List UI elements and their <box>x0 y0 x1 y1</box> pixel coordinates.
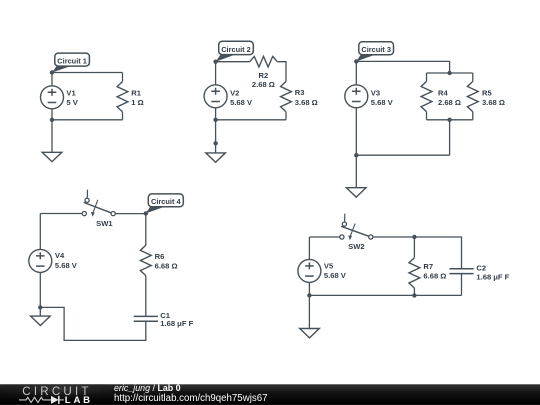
svg-text:5 V: 5 V <box>66 98 78 107</box>
wire: V2 top lead <box>215 62 217 85</box>
wire: C2 bottom lead <box>461 274 463 296</box>
flag: Circuit 4 callout <box>146 194 184 214</box>
switch SW2 actuation arrow <box>348 224 355 241</box>
junction: circuit 3 ground node <box>354 153 358 157</box>
flag: Circuit 1 callout <box>52 53 89 72</box>
svg-text:V5: V5 <box>324 261 334 270</box>
label: V1 designator <box>66 88 76 97</box>
svg-text:http://circuitlab.com/ch9qeh75: http://circuitlab.com/ch9qeh75wjs67 <box>114 393 267 404</box>
wire: V4 top lead <box>39 214 41 250</box>
label: R5 designator <box>482 89 492 98</box>
ground circuit 1 <box>42 152 62 161</box>
svg-text:R1: R1 <box>131 89 141 98</box>
wire: R4 bottom lead <box>426 112 428 120</box>
ground circuit 5 <box>300 329 320 338</box>
svg-text:Circuit 4: Circuit 4 <box>151 197 181 206</box>
junction: V1 bottom node <box>50 118 54 122</box>
svg-text:V3: V3 <box>371 88 380 97</box>
svg-text:3.68 Ω: 3.68 Ω <box>482 98 505 107</box>
label: V4 value <box>55 261 78 270</box>
label: C1 designator <box>160 311 170 320</box>
node: circuit 2 anchor dot <box>213 60 217 64</box>
svg-text:Circuit 2: Circuit 2 <box>221 45 251 54</box>
label: R7 value <box>423 272 446 281</box>
svg-text:V2: V2 <box>230 88 239 97</box>
wire: circuit 1 top rail <box>52 72 123 74</box>
svg-text:R4: R4 <box>438 89 448 98</box>
junction: circuit 5 ground node <box>307 293 311 297</box>
label: V5 designator <box>324 261 334 270</box>
junction: V2 bottom node <box>213 118 217 122</box>
wire: R6 top lead <box>145 214 147 246</box>
wire: circuit 3 top rail <box>356 61 449 73</box>
voltage source V5 <box>298 259 321 282</box>
ground circuit 4 <box>31 316 51 325</box>
resistor R6 <box>140 245 151 275</box>
label: C2 designator <box>476 264 486 273</box>
node: circuit 3 anchor dot <box>354 59 358 63</box>
wire: parallel top rail <box>427 72 473 74</box>
footer bar background <box>0 375 540 405</box>
wire: circuit 2 bottom rail <box>216 119 286 121</box>
wire: R7 top lead <box>413 237 415 258</box>
svg-text:SW2: SW2 <box>348 242 364 251</box>
label: V5 value <box>324 271 347 280</box>
svg-text:2.68 Ω: 2.68 Ω <box>438 98 461 107</box>
resistor R5 <box>467 81 478 111</box>
footer attribution line <box>114 383 181 393</box>
logo resistor zigzag <box>19 397 51 402</box>
svg-text:1.68 μF F: 1.68 μF F <box>160 319 193 328</box>
wire: ground stub circuit 5 <box>308 295 310 328</box>
svg-text:R6: R6 <box>155 252 165 261</box>
wire: V5 bottom lead <box>308 282 310 295</box>
label: V4 designator <box>55 251 65 260</box>
label: R1 designator <box>131 89 141 98</box>
flag: Circuit 3 callout <box>356 42 393 62</box>
capacitor C1 <box>134 316 158 321</box>
logo diode <box>51 396 64 404</box>
wire: circuit 5 bottom rail <box>309 294 461 296</box>
label: R3 designator <box>295 88 305 97</box>
svg-text:R3: R3 <box>295 88 305 97</box>
voltage source V4 <box>29 249 52 272</box>
resistor R4 <box>421 81 432 111</box>
wire: V1 bottom lead <box>51 109 53 120</box>
label: R7 designator <box>423 262 433 271</box>
switch SW2 right terminal <box>369 235 373 239</box>
svg-text:R5: R5 <box>482 89 492 98</box>
switch SW2 upper terminal <box>342 222 346 226</box>
wire: R1 top lead <box>122 73 124 82</box>
wire: R5 top lead <box>472 73 474 81</box>
wire: drop to circuit 3 bottom rail <box>449 120 451 155</box>
wire: circuit 1 bottom rail <box>52 119 123 121</box>
svg-text:SW1: SW1 <box>96 219 113 228</box>
resistor R7 <box>409 258 420 288</box>
resistor R3 <box>281 82 292 112</box>
label: V3 designator <box>371 88 380 97</box>
wire: V2 bottom lead <box>215 108 217 120</box>
junction: ground net dot circuit 2 <box>213 141 217 145</box>
voltage source V2 <box>204 85 227 108</box>
svg-text:5.68 V: 5.68 V <box>324 271 347 280</box>
wire: ground stub circuit 1 <box>51 120 53 153</box>
switch SW1 control stub <box>86 190 88 199</box>
ground circuit 2 <box>206 153 226 162</box>
junction: parallel bottom node <box>447 118 451 122</box>
label: R4 value <box>438 98 461 107</box>
svg-text:LAB: LAB <box>65 395 93 405</box>
capacitor C2 <box>449 269 473 274</box>
voltage source V3 <box>345 85 368 108</box>
label: V1 value 5 V <box>66 98 78 107</box>
node: circuit 4 anchor dot <box>144 211 148 215</box>
svg-text:eric_jung / Lab 0: eric_jung / Lab 0 <box>114 383 181 393</box>
label: R6 designator <box>155 252 165 261</box>
label: V2 value <box>230 98 253 107</box>
wire: V3 bottom lead <box>355 108 357 156</box>
label: R6 value <box>155 262 178 271</box>
wire: SW1 to node segment <box>115 213 146 215</box>
wire: R4 top lead <box>426 73 428 81</box>
node A: circuit 1 anchor dot <box>50 70 54 74</box>
wire: V3 top lead <box>355 61 357 84</box>
logo wordmark CIRCUIT <box>22 385 91 398</box>
wire: V4 bottom lead <box>39 272 41 307</box>
svg-text:6.68 Ω: 6.68 Ω <box>155 262 178 271</box>
switch SW1 left terminal <box>82 212 86 216</box>
svg-text:2.68 Ω: 2.68 Ω <box>252 80 275 89</box>
svg-text:6.68 Ω: 6.68 Ω <box>423 272 446 281</box>
label: V2 designator <box>230 88 239 97</box>
label: R3 value <box>295 98 318 107</box>
svg-text:1.68 μF F: 1.68 μF F <box>476 272 509 281</box>
flag: Circuit 2 callout <box>216 41 254 61</box>
label: V3 value <box>371 98 394 107</box>
wire: ground stub circuit 2 <box>215 120 217 153</box>
footer url line <box>114 393 267 404</box>
switch SW2 left terminal <box>340 235 344 239</box>
label: R5 value <box>482 98 505 107</box>
resistor R2 <box>250 56 278 67</box>
wire: R5 bottom lead <box>472 112 474 120</box>
wire: R2 right lead to corner <box>277 62 286 82</box>
switch SW1 actuation arrow <box>91 200 98 217</box>
junction: circuit 4 ground node <box>38 305 42 309</box>
wire: R1 bottom lead <box>122 112 124 120</box>
svg-text:V4: V4 <box>55 251 65 260</box>
svg-text:R7: R7 <box>423 262 433 271</box>
wire: R3 bottom lead <box>285 112 287 120</box>
svg-text:3.68 Ω: 3.68 Ω <box>295 98 318 107</box>
label: R2 value <box>252 80 275 89</box>
label: C2 value <box>476 272 509 281</box>
logo wordmark LAB <box>65 395 93 405</box>
wire: SW2 to C2 top segment <box>373 237 461 269</box>
wire: R7 bottom lead <box>413 288 415 295</box>
switch SW1 upper terminal <box>85 198 89 202</box>
label: C1 value <box>160 319 193 328</box>
wire: ground stub circuit 4 <box>39 307 41 316</box>
wire: C1 bottom lead and return path <box>40 307 146 340</box>
svg-text:5.68 V: 5.68 V <box>55 261 78 270</box>
wire: R6 bottom lead <box>145 276 147 317</box>
svg-text:C2: C2 <box>476 264 486 273</box>
resistor R1 <box>117 82 128 112</box>
wire: V1 top lead <box>51 73 53 87</box>
svg-text:Circuit 3: Circuit 3 <box>361 45 391 54</box>
switch SW2 control stub <box>344 214 346 222</box>
junction: parallel top node <box>447 71 451 75</box>
wire: circuit 4 top-left segment <box>40 213 82 215</box>
label: SW2 designator <box>348 242 364 251</box>
label: SW1 designator <box>96 219 113 228</box>
wire: circuit 3 bottom rail <box>356 154 449 156</box>
svg-text:R2: R2 <box>259 71 269 80</box>
voltage source V1 <box>41 86 64 109</box>
wire: circuit 2 top-left segment <box>216 61 250 63</box>
label: R2 designator <box>259 71 269 80</box>
label: R1 value 1 ohm <box>131 98 143 107</box>
switch SW2 blade <box>341 226 369 236</box>
wire: circuit 5 top-left segment <box>309 236 339 238</box>
junction: R7 bottom node <box>412 293 416 297</box>
switch SW1 right terminal <box>111 212 115 216</box>
label: R4 designator <box>438 89 448 98</box>
wire: ground stub circuit 3 <box>355 155 357 188</box>
switch SW1 blade <box>84 203 111 213</box>
svg-text:5.68 V: 5.68 V <box>371 98 394 107</box>
svg-text:1 Ω: 1 Ω <box>131 98 143 107</box>
ground circuit 3 <box>346 188 366 197</box>
svg-text:Circuit 1: Circuit 1 <box>57 57 87 66</box>
svg-text:V1: V1 <box>66 88 76 97</box>
junction: R7 top node <box>412 235 416 239</box>
svg-text:5.68 V: 5.68 V <box>230 98 253 107</box>
wire: V5 top lead <box>308 237 310 259</box>
wire: parallel bottom rail <box>427 119 473 121</box>
